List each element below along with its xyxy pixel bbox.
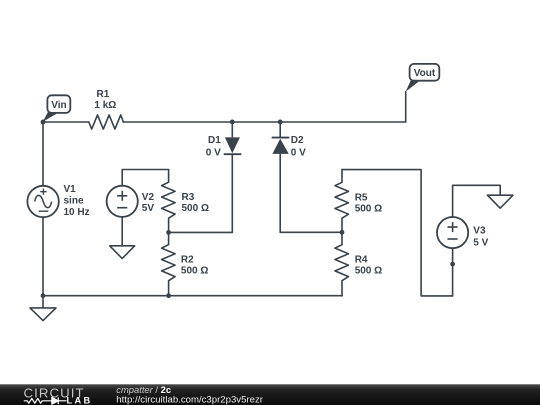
svg-text:500 Ω: 500 Ω bbox=[181, 266, 208, 277]
resistor R2 bbox=[162, 232, 176, 295]
svg-text:http://circuitlab.com/c3pr2p3v: http://circuitlab.com/c3pr2p3v5rezr bbox=[116, 395, 263, 405]
svg-text:5 V: 5 V bbox=[473, 238, 488, 249]
svg-text:500 Ω: 500 Ω bbox=[355, 266, 382, 277]
resistor R4 bbox=[335, 232, 349, 296]
diode D2 bbox=[272, 122, 290, 232]
svg-text:0 V: 0 V bbox=[291, 148, 306, 159]
svg-text:V2: V2 bbox=[142, 192, 155, 203]
svg-text:cmpatter / 2c: cmpatter / 2c bbox=[116, 384, 171, 395]
svg-text:500 Ω: 500 Ω bbox=[182, 203, 209, 214]
svg-text:R3: R3 bbox=[182, 192, 195, 203]
wire D2 to R5/R4 junction bbox=[280, 231, 342, 233]
wire R3 junction to D1 bbox=[169, 231, 233, 233]
svg-text:500 Ω: 500 Ω bbox=[355, 204, 382, 215]
wire Vout stub bbox=[405, 92, 407, 122]
svg-text:D1: D1 bbox=[208, 135, 221, 146]
svg-text:R4: R4 bbox=[355, 254, 368, 265]
junction dot bottom left bbox=[41, 293, 46, 298]
wire V1 bottom bbox=[42, 217, 44, 296]
footer bar bbox=[0, 384, 540, 405]
junction dot D1 top bbox=[230, 120, 235, 125]
source V1 sine bbox=[27, 186, 58, 217]
svg-text:1 kΩ: 1 kΩ bbox=[94, 100, 116, 111]
source V2 bbox=[107, 186, 138, 217]
junction dot V3 bottom bbox=[450, 262, 455, 267]
node dot Vin bbox=[41, 120, 46, 125]
flag Vout bbox=[406, 64, 440, 92]
wire V2 bottom bbox=[121, 217, 123, 246]
svg-text:R2: R2 bbox=[181, 254, 194, 265]
junction dot R2 bottom bbox=[166, 293, 171, 298]
ground G2 under V2 bbox=[110, 246, 135, 259]
wire bottom rail bbox=[43, 295, 342, 297]
wire V2 to R3 link bbox=[122, 170, 168, 186]
flag Vin bbox=[43, 95, 71, 121]
svg-text:V1: V1 bbox=[64, 184, 77, 195]
svg-text:5V: 5V bbox=[142, 203, 155, 214]
svg-text:R1: R1 bbox=[97, 89, 110, 100]
svg-text:LAB: LAB bbox=[67, 396, 93, 405]
resistor R3 bbox=[162, 170, 176, 233]
junction dot D2 top bbox=[278, 120, 283, 125]
junction dot R3/R2 bbox=[166, 230, 171, 235]
wire V3 bottom lead bbox=[452, 248, 454, 296]
svg-text:Vin: Vin bbox=[51, 100, 66, 111]
wire top rail right bbox=[123, 121, 405, 123]
wire V1 top bbox=[42, 122, 44, 186]
junction dot R5/R4 bbox=[340, 230, 345, 235]
svg-text:R5: R5 bbox=[355, 192, 368, 203]
wire V3 top to ground bbox=[453, 185, 501, 217]
wire top rail left bbox=[43, 121, 89, 123]
ground G1 bottom left bbox=[30, 296, 56, 321]
svg-text:0 V: 0 V bbox=[206, 148, 221, 159]
svg-text:Vout: Vout bbox=[414, 68, 436, 79]
wire R5 top to V3 bottom bbox=[342, 170, 453, 296]
diode D1 bbox=[224, 122, 242, 232]
svg-text:sine: sine bbox=[64, 196, 84, 207]
svg-text:D2: D2 bbox=[291, 135, 304, 146]
svg-text:V3: V3 bbox=[473, 225, 486, 236]
ground G3 right of V3 bbox=[487, 195, 513, 208]
source V3 bbox=[437, 217, 468, 248]
resistor R5 bbox=[335, 170, 349, 233]
svg-text:10 Hz: 10 Hz bbox=[64, 207, 90, 218]
resistor R1 bbox=[89, 115, 124, 129]
logo doodle resistor and diode bbox=[24, 397, 67, 404]
